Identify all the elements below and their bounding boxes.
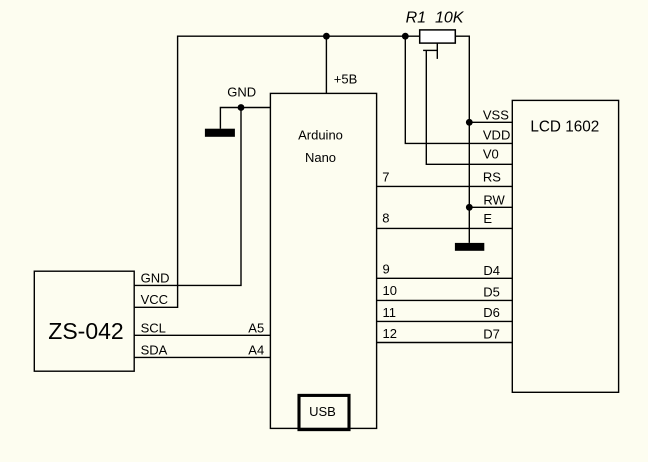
svg-text:Nano: Nano	[305, 150, 336, 165]
svg-text:+5B: +5B	[334, 72, 358, 87]
svg-text:VDD: VDD	[483, 127, 510, 142]
svg-text:SCL: SCL	[141, 320, 166, 335]
svg-text:D7: D7	[483, 326, 500, 341]
svg-text:12: 12	[383, 326, 397, 341]
svg-text:10: 10	[383, 283, 397, 298]
svg-text:VSS: VSS	[483, 108, 509, 123]
svg-text:Arduino: Arduino	[298, 128, 343, 143]
svg-text:VCC: VCC	[141, 292, 168, 307]
svg-text:RS: RS	[483, 169, 501, 184]
svg-text:LCD 1602: LCD 1602	[530, 119, 599, 136]
svg-text:7: 7	[382, 169, 389, 184]
svg-text:9: 9	[383, 261, 390, 276]
svg-text:USB: USB	[309, 404, 336, 419]
svg-text:D5: D5	[483, 284, 500, 299]
svg-text:ZS-042: ZS-042	[48, 318, 123, 344]
svg-text:GND: GND	[141, 271, 170, 286]
svg-text:11: 11	[383, 305, 397, 320]
svg-text:D6: D6	[483, 305, 500, 320]
svg-text:D4: D4	[483, 263, 500, 278]
svg-text:R1 10K: R1 10K	[406, 9, 465, 26]
svg-text:A5: A5	[248, 320, 264, 335]
svg-text:A4: A4	[248, 342, 264, 357]
svg-text:V0: V0	[483, 147, 499, 162]
svg-text:RW: RW	[483, 192, 505, 207]
svg-text:8: 8	[382, 211, 389, 226]
svg-text:E: E	[483, 211, 492, 226]
svg-text:SDA: SDA	[141, 342, 168, 357]
svg-text:GND: GND	[227, 85, 256, 100]
